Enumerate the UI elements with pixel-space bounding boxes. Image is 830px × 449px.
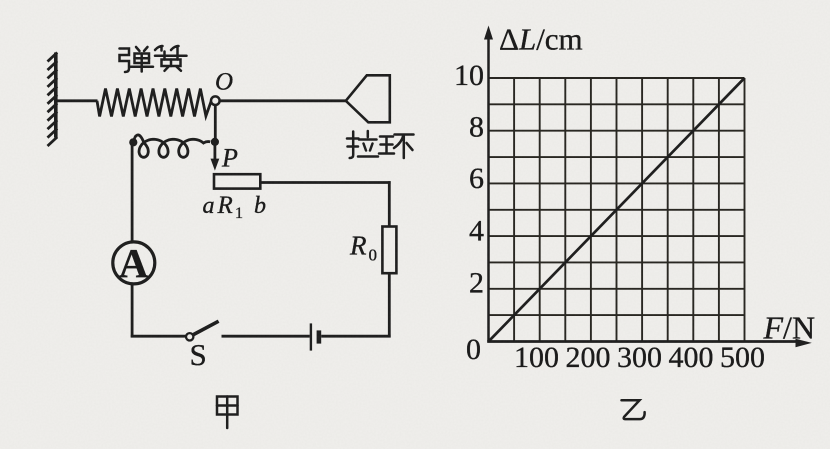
wire battery to right corner (321, 335, 390, 338)
wall (fixed support) (48, 53, 58, 147)
switch lever (193, 321, 218, 334)
junction node dot (211, 138, 219, 146)
wire O down to junction (214, 105, 217, 143)
label 拉环 (347, 131, 414, 158)
battery short thick plate (317, 330, 322, 343)
caption 乙 (622, 400, 645, 419)
switch S pivot (186, 333, 193, 340)
y axis (487, 36, 490, 342)
wire corner down to R0 (388, 181, 391, 226)
wire R0 down (388, 273, 391, 337)
resistor R0 body (382, 227, 396, 274)
caption 甲 (217, 397, 238, 429)
battery long plate (310, 323, 312, 350)
ammeter A (113, 242, 155, 284)
label 弹簧 (120, 46, 187, 72)
left vertical wire (dot to ammeter) (131, 142, 134, 242)
slider arrow P (213, 142, 216, 160)
bottom wire to switch (131, 335, 186, 338)
wire R1.b to right corner (260, 181, 390, 184)
wire O to pull ring (220, 99, 346, 102)
plotted line (489, 78, 745, 342)
wire ammeter down (131, 284, 134, 338)
spring (弹簧) (97, 89, 211, 117)
left node dot (129, 138, 137, 146)
x axis (487, 340, 798, 343)
pull ring (拉环) pentagon (346, 75, 390, 122)
graph grid (489, 78, 745, 342)
flexible coil wire (134, 135, 211, 157)
rheostat R1 body (214, 174, 260, 188)
node O (small open circle) (211, 96, 220, 105)
wire switch to battery (222, 335, 310, 338)
wire wall to spring (57, 99, 98, 102)
